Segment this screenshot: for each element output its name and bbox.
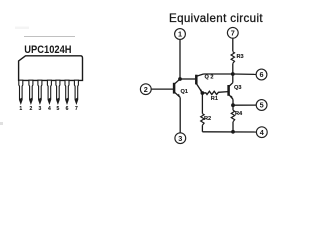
svg-text:R1: R1 [211, 96, 218, 102]
svg-text:Q3: Q3 [234, 85, 241, 91]
svg-text:7: 7 [231, 29, 235, 38]
svg-text:R4: R4 [235, 111, 243, 117]
svg-text:R2: R2 [204, 116, 211, 122]
svg-text:1: 1 [178, 30, 182, 39]
svg-text:6: 6 [259, 70, 263, 79]
svg-text:R3: R3 [237, 54, 244, 60]
svg-text:3: 3 [178, 134, 182, 143]
svg-text:2: 2 [144, 85, 148, 94]
svg-text:Q1: Q1 [181, 89, 188, 95]
svg-text:5: 5 [260, 101, 264, 110]
svg-text:Q 2: Q 2 [205, 75, 214, 81]
svg-text:Equivalent circuit: Equivalent circuit [169, 12, 263, 25]
